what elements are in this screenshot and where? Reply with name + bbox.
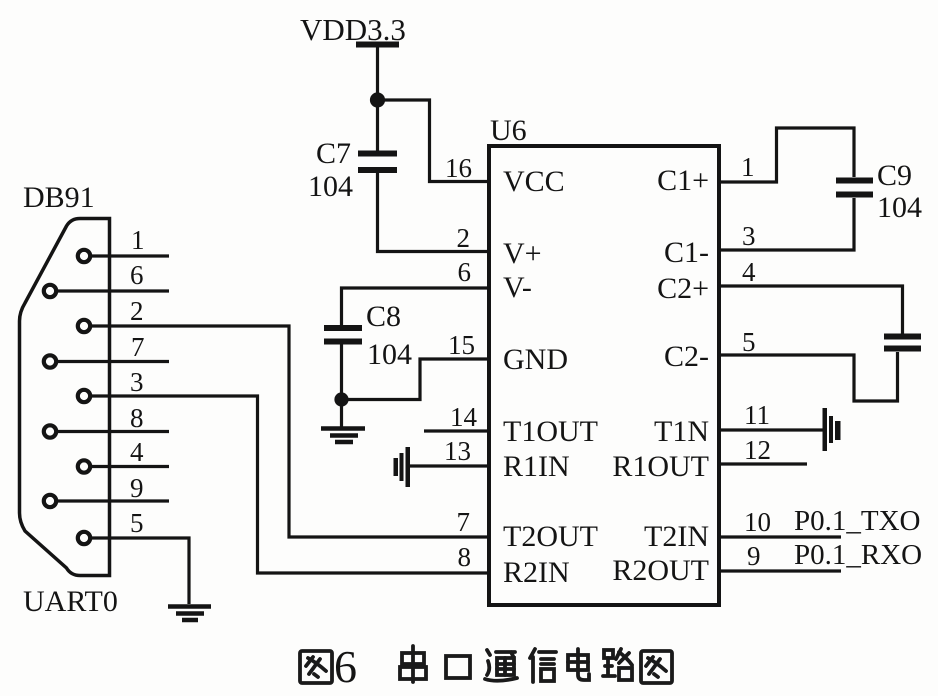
svg-text:104: 104: [308, 170, 353, 203]
svg-text:5: 5: [742, 327, 756, 357]
svg-text:R1IN: R1IN: [503, 450, 570, 483]
svg-text:R1OUT: R1OUT: [612, 450, 709, 483]
char 口: [446, 656, 470, 678]
char 串: [400, 646, 426, 682]
svg-text:104: 104: [367, 338, 412, 371]
wire pin 11 T1N: [719, 428, 823, 431]
svg-text:T1N: T1N: [654, 415, 709, 448]
svg-text:C2+: C2+: [657, 272, 709, 305]
svg-text:R2OUT: R2OUT: [612, 554, 709, 587]
wire pin 9 R2OUT: [719, 569, 841, 572]
DB9 pin 8 circle: [44, 425, 56, 437]
wire pin 3 C1- to C9 bottom: [719, 198, 854, 250]
connector DB91 body outline: [20, 219, 110, 576]
DB9 pin 7 circle: [44, 355, 56, 367]
wire DB9 pin 1: [91, 254, 169, 257]
wire C8 bottom to junction: [340, 345, 343, 400]
wire DB9 pin 2 to pin 7 T2OUT: [91, 326, 489, 537]
svg-text:9: 9: [130, 473, 144, 503]
caption 图6 串口通信电路图 (hand-drawn strokes): [300, 641, 672, 692]
svg-text:T1OUT: T1OUT: [503, 415, 598, 448]
wire DB9 pin 3 to pin 8 R2IN: [91, 396, 489, 573]
svg-text:14: 14: [450, 402, 478, 432]
svg-text:VDD3.3: VDD3.3: [300, 12, 406, 47]
char 路: [603, 649, 632, 680]
svg-text:VCC: VCC: [503, 165, 565, 198]
wire pin 4 C2+ to C10 top: [719, 286, 903, 334]
capacitor C7 plates: [358, 151, 397, 174]
wire DB9 pin 9: [57, 499, 169, 502]
svg-text:GND: GND: [503, 343, 568, 376]
wire VDD3.3 bar to junction: [376, 47, 379, 100]
ground symbol (UART0): [168, 607, 211, 621]
char 图 (2nd): [641, 651, 672, 683]
svg-text:P0.1_RXO: P0.1_RXO: [794, 539, 922, 571]
svg-text:1: 1: [131, 225, 145, 255]
svg-text:3: 3: [742, 221, 756, 251]
IC U6 body: [489, 146, 719, 605]
junction node (VDD / C7 / pin16): [372, 94, 384, 106]
svg-text:5: 5: [130, 508, 144, 538]
ground symbol (at pin 13, pointing left): [394, 447, 411, 487]
svg-text:P0.1_TXO: P0.1_TXO: [794, 505, 920, 537]
capacitor C10 plates: [884, 334, 921, 352]
svg-text:6: 6: [130, 260, 144, 290]
wire DB9 pin 4: [91, 465, 169, 468]
wire pin 5 C2- to C10 bottom: [719, 352, 898, 401]
ground symbol (below C8): [321, 429, 365, 443]
svg-text:15: 15: [448, 330, 475, 360]
svg-text:8: 8: [458, 542, 472, 572]
svg-text:T2IN: T2IN: [644, 520, 709, 553]
capacitor C9 plates: [836, 178, 873, 198]
wire pin 12 R1OUT stub: [719, 462, 807, 465]
svg-text:104: 104: [877, 191, 922, 224]
power symbol VDD3.3 bar: [356, 42, 399, 48]
capacitor C8 plates: [324, 325, 362, 345]
svg-text:6: 6: [458, 257, 472, 287]
svg-text:DB91: DB91: [23, 181, 95, 214]
svg-text:9: 9: [747, 541, 761, 571]
svg-text:C1+: C1+: [657, 164, 709, 197]
char 图 (1st): [300, 651, 332, 683]
svg-text:6: 6: [334, 641, 357, 692]
DB9 pin 3 circle: [78, 390, 90, 402]
svg-text:12: 12: [744, 435, 771, 465]
svg-text:T2OUT: T2OUT: [503, 520, 598, 553]
svg-text:C9: C9: [877, 159, 912, 192]
svg-text:C8: C8: [366, 300, 401, 333]
svg-text:2: 2: [457, 223, 471, 253]
svg-text:4: 4: [130, 437, 144, 467]
DB9 pin 5 circle: [78, 532, 90, 544]
svg-text:7: 7: [457, 507, 471, 537]
svg-text:7: 7: [131, 332, 145, 362]
svg-text:3: 3: [130, 367, 144, 397]
svg-text:1: 1: [741, 152, 755, 182]
char 通: [485, 650, 517, 681]
wire DB9 pin 8: [57, 430, 169, 433]
wire DB9 pin 6: [57, 289, 169, 292]
char 信: [530, 649, 556, 682]
char 电: [568, 649, 589, 680]
svg-text:R2IN: R2IN: [503, 556, 570, 589]
wire junction to pin 15 GND: [342, 359, 490, 400]
svg-text:16: 16: [445, 153, 472, 183]
svg-text:C7: C7: [316, 137, 351, 170]
svg-text:11: 11: [744, 400, 770, 430]
wire junction to ground: [340, 400, 343, 428]
wire junction to C7 top: [376, 100, 379, 151]
wire DB9 pin 7: [57, 360, 169, 363]
svg-text:13: 13: [444, 436, 471, 466]
wire DB9 pin 5 to ground: [91, 538, 189, 604]
wire pin 14 T1OUT stub: [424, 429, 489, 432]
junction node (C8 / GND pin15 / ground): [336, 394, 347, 405]
wire pin 1 C1+ to C9 top: [719, 128, 854, 182]
DB9 pin 6 circle: [44, 285, 56, 297]
svg-text:V-: V-: [503, 271, 532, 304]
wire pin 10 T2IN: [719, 535, 841, 538]
DB9 pin 2 circle: [78, 320, 90, 332]
DB9 pin 4 circle: [78, 460, 90, 472]
svg-text:C2-: C2-: [664, 340, 709, 373]
svg-text:4: 4: [742, 257, 756, 287]
svg-text:2: 2: [130, 296, 144, 326]
svg-text:UART0: UART0: [23, 585, 118, 618]
svg-text:10: 10: [744, 507, 771, 537]
svg-text:C1-: C1-: [664, 236, 709, 269]
wire C7 bottom to pin 2 V+: [378, 173, 490, 252]
wire pin 6 V- to C8 top: [342, 288, 490, 326]
DB9 pin 9 circle: [44, 495, 56, 507]
svg-text:8: 8: [130, 403, 144, 433]
DB9 pin 1 circle: [78, 250, 90, 262]
svg-text:U6: U6: [490, 114, 527, 147]
ground symbol (at pin 11, pointing right): [823, 408, 841, 451]
svg-text:V+: V+: [503, 237, 542, 270]
wire junction to pin 16 VCC: [378, 100, 490, 182]
wire pin 13 R1IN: [410, 464, 489, 467]
